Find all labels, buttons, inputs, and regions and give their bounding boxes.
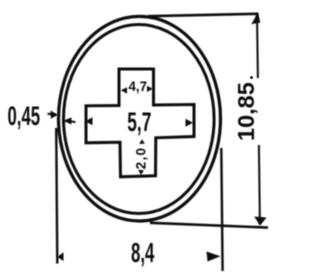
svg-text:0,45: 0,45 bbox=[8, 101, 41, 131]
svg-text:10,85: 10,85 bbox=[233, 82, 259, 141]
svg-text:4,7: 4,7 bbox=[129, 79, 147, 94]
svg-text:5,7: 5,7 bbox=[127, 106, 151, 137]
svg-text:2,0: 2,0 bbox=[134, 147, 149, 170]
svg-text:8,4: 8,4 bbox=[131, 237, 154, 269]
